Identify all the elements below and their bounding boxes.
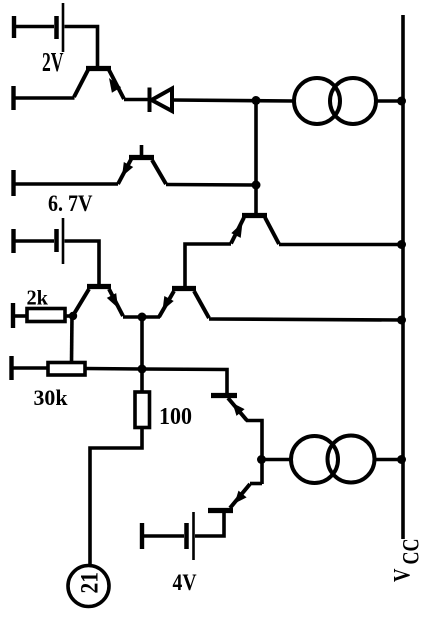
junction	[138, 365, 147, 374]
svg-text:30k: 30k	[34, 385, 69, 410]
wire	[14, 239, 55, 243]
terminal (row B)	[11, 86, 15, 110]
wire	[65, 314, 74, 318]
junction at rail	[397, 455, 406, 464]
wire	[376, 99, 403, 103]
transistor Q4 base bar	[87, 284, 111, 289]
svg-text:4V: 4V	[173, 570, 197, 596]
transistor Q1 emitter arrow	[109, 78, 121, 93]
battery 4V short plate	[184, 523, 189, 549]
battery 6.7V long plate	[62, 218, 65, 264]
svg-text:2k: 2k	[27, 286, 49, 310]
diode D1 triangle	[152, 89, 173, 112]
junction	[252, 96, 261, 105]
transistor Q4 emitter arrow	[107, 293, 118, 308]
transistor Q1 collector leg	[74, 70, 88, 97]
transistor Q2 base bar	[129, 155, 154, 160]
junction at rail	[397, 240, 406, 249]
wire	[250, 482, 262, 486]
wire (emitter junction)	[123, 315, 160, 319]
wire	[14, 182, 119, 186]
transistor Q5 emitter arrow	[163, 296, 174, 311]
transistor Q1 emitter leg	[109, 70, 124, 99]
transistor Q1 base bar	[86, 66, 111, 71]
resistor 100	[135, 392, 150, 428]
transistor Q6 emitter leg	[228, 398, 247, 421]
terminal (4V row)	[140, 523, 144, 549]
value label 2V	[42, 47, 64, 77]
Vcc rail	[401, 15, 405, 539]
transistor Q4 collector leg	[73, 289, 89, 316]
transistor Q2 collector leg	[152, 160, 166, 184]
terminal (6.7V row)	[11, 170, 15, 196]
wire	[262, 458, 291, 462]
battery 4V long plate	[192, 512, 195, 560]
battery 6.7V short plate	[54, 229, 59, 252]
wire	[279, 243, 403, 247]
current source I1	[294, 78, 340, 124]
svg-text:CC: CC	[399, 539, 424, 565]
transistor Q7 emitter arrow	[235, 491, 247, 504]
svg-text:21: 21	[77, 572, 104, 594]
transistor Q6 emitter arrow	[233, 403, 245, 416]
transistor Q3 collector leg	[265, 218, 279, 245]
net label Vcc	[390, 539, 424, 583]
wire (Q3 to Q5 base)	[185, 244, 231, 287]
resistor 2k	[27, 309, 65, 322]
pin label 21	[77, 572, 104, 594]
junction	[138, 313, 147, 322]
transistor Q2 emitter leg	[118, 159, 132, 185]
wire	[12, 366, 49, 370]
junction at rail	[397, 316, 406, 325]
transistor Q7 base bar	[208, 508, 233, 513]
resistor 30k	[48, 363, 85, 376]
wire	[195, 512, 224, 536]
wire	[90, 428, 142, 567]
wire	[140, 317, 144, 392]
transistor Q4 emitter leg	[109, 289, 123, 316]
value label 6.7V	[48, 191, 93, 216]
wire	[85, 367, 142, 371]
junction	[252, 181, 261, 190]
value label 30k	[34, 385, 69, 410]
wire	[142, 534, 184, 538]
svg-text:6. 7V: 6. 7V	[48, 191, 93, 216]
junction at rail	[397, 97, 406, 106]
terminal circle 21	[68, 566, 109, 607]
transistor Q6 base bar	[211, 393, 237, 398]
transistor Q2 emitter arrow	[122, 162, 133, 177]
transistor Q3 emitter arrow	[231, 223, 242, 238]
wire	[142, 369, 227, 393]
wire (node down to Q3 base)	[254, 101, 258, 215]
transistor Q5 base bar	[172, 286, 196, 291]
transistor Q5 collector leg	[194, 291, 209, 318]
battery 2V long plate	[62, 3, 65, 52]
wire	[209, 319, 403, 320]
value label 2k	[27, 286, 49, 310]
value label 100	[159, 404, 192, 430]
wire	[14, 96, 75, 100]
transistor Q3 base bar	[242, 213, 267, 218]
wire	[70, 316, 74, 363]
wire	[124, 98, 148, 102]
terminal (30k row)	[9, 356, 13, 380]
transistor Q7 emitter leg	[230, 484, 250, 508]
wire	[246, 421, 262, 485]
wire	[13, 314, 27, 318]
terminal (2k row)	[11, 303, 15, 328]
terminal (2V row)	[12, 16, 16, 38]
terminal (6.7V battery row)	[11, 229, 15, 253]
transistor Q3 emitter leg	[231, 218, 244, 244]
wire	[166, 183, 256, 187]
wire	[14, 25, 54, 29]
current source I2	[291, 436, 338, 483]
svg-text:V: V	[390, 568, 415, 582]
diode D1 cathode bar	[148, 88, 152, 113]
wire	[172, 100, 294, 101]
value label 4V	[173, 570, 197, 596]
transistor Q5 emitter leg	[159, 291, 174, 317]
transistor Q2 base stub	[140, 145, 144, 158]
junction	[69, 312, 77, 320]
svg-text:2V: 2V	[42, 47, 64, 77]
battery 2V short plate	[54, 16, 59, 39]
junction	[257, 455, 266, 464]
wire	[375, 458, 404, 462]
wire	[65, 241, 100, 284]
wire	[65, 27, 98, 67]
svg-text:100: 100	[159, 404, 192, 430]
